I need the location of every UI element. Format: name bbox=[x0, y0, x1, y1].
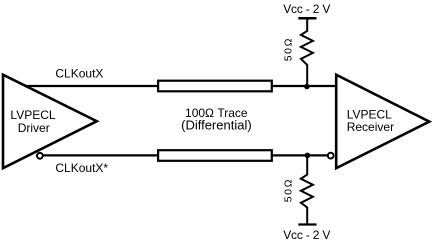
svg-text:50Ω: 50Ω bbox=[282, 178, 294, 202]
svg-text:Vcc - 2 V: Vcc - 2 V bbox=[283, 228, 330, 242]
svg-text:Vcc - 2 V: Vcc - 2 V bbox=[283, 2, 330, 16]
svg-text:CLKoutX*: CLKoutX* bbox=[55, 161, 108, 175]
svg-text:(Differential): (Differential) bbox=[181, 118, 252, 133]
svg-text:Driver: Driver bbox=[18, 121, 50, 135]
svg-text:CLKoutX: CLKoutX bbox=[55, 67, 103, 81]
driver U1 LVPECL triangle bbox=[3, 75, 97, 169]
supply rail bar Vcc-2V (top) bbox=[298, 17, 316, 20]
resistor R2 50Ω (bottom termination) bbox=[301, 155, 313, 223]
junction node: R1 to net CLKoutX bbox=[304, 84, 310, 90]
svg-text:LVPECL: LVPECL bbox=[10, 108, 55, 122]
supply rail bar Vcc-2V (bottom) bbox=[298, 223, 316, 225]
svg-text:Receiver: Receiver bbox=[347, 120, 394, 134]
wire CLKoutX (net between driver output and receiver input) bbox=[26, 85, 336, 87]
wire CLKoutX* (net between driver bubble and receiver bubble) bbox=[42, 154, 329, 156]
driver inverted-output bubble bbox=[37, 153, 43, 159]
junction node: R2 to net CLKoutX* bbox=[305, 153, 311, 159]
receiver U2 LVPECL triangle bbox=[336, 75, 429, 169]
receiver inverting-input bubble bbox=[328, 153, 334, 159]
transmission line T1 (top 100 ohm trace) bbox=[158, 81, 272, 92]
transmission line T2 (bottom 100 ohm trace) bbox=[158, 150, 272, 161]
svg-text:50Ω: 50Ω bbox=[282, 37, 294, 61]
resistor R1 50Ω (top termination) bbox=[301, 19, 313, 86]
